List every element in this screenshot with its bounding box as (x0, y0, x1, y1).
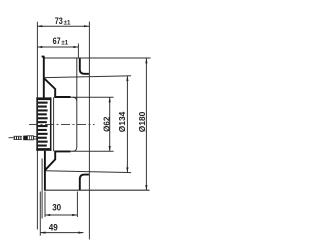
impeller bottom rim edge (45, 189, 150, 191)
dimension Ø180 (137, 58, 148, 190)
cable strain relief (striped) (14, 136, 23, 139)
hub bottom line thin (Ø62 ext) (71, 150, 114, 152)
impeller shroud bottom line (45, 171, 131, 173)
wire left reference extension line (36, 22, 38, 230)
inlet ring top (thick section) (42, 56, 56, 98)
plug body (dark) (23, 136, 27, 141)
dimension Ø134 (117, 76, 129, 173)
wire 30 right extension line (76, 192, 78, 218)
hub top line thin (Ø62 ext) (71, 96, 114, 98)
motor block left wall (36, 97, 38, 150)
svg-text:Ø62: Ø62 (101, 116, 111, 131)
wire right extension line B (73 ref / rotor face) (88, 22, 90, 240)
inlet ring bottom (thick section) (45, 151, 55, 191)
dimension 67±1 (37, 36, 79, 48)
svg-text:30: 30 (52, 202, 61, 212)
motor hub left face (53, 97, 55, 151)
centerline (dash-dot axis) (29, 123, 95, 125)
cable wire (9, 137, 14, 139)
dimension Ø62 (101, 97, 111, 151)
wire 49 left extension line (39, 192, 41, 236)
motor block top cap (36, 97, 51, 100)
wire bottom lip extension line (41, 159, 43, 219)
motor block bottom cap (36, 148, 51, 151)
svg-text:Ø134: Ø134 (117, 111, 127, 132)
svg-text:73: 73 (55, 16, 63, 26)
impeller shroud top line (slightly sloped, also Ø134 ext) (45, 76, 131, 78)
svg-text:49: 49 (49, 222, 58, 232)
svg-text:67: 67 (53, 36, 61, 46)
plug housing (outline) (27, 136, 33, 140)
wire 67 right extension line (77, 44, 79, 59)
svg-text:±1: ±1 (61, 39, 68, 46)
dimension 30 (45, 202, 77, 216)
rotor left face line A with fillets (73, 58, 77, 151)
dimension 49 (40, 222, 83, 233)
wire 30 left extension line (44, 192, 46, 218)
motor block right wall (50, 97, 52, 150)
hub front flange bottom J (80, 175, 89, 190)
svg-text:Ø180: Ø180 (137, 111, 147, 132)
dimension 73±1 (37, 16, 89, 27)
svg-text:±1: ±1 (64, 19, 71, 26)
hub bottom line thick (54, 150, 70, 152)
plug stub to motor (33, 137, 36, 139)
motor cooling ribs (38, 102, 48, 147)
hub front flange top J (80, 58, 89, 73)
hub top line thick (54, 96, 70, 98)
impeller top rim edge (44, 57, 150, 59)
